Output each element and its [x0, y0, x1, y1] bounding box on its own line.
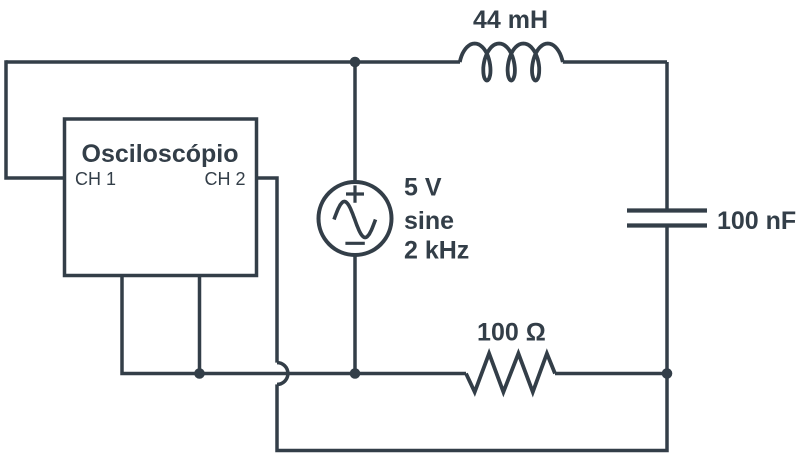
wire capacitor bottom [665, 226, 669, 374]
wire capacitor top [665, 62, 669, 211]
voltage source V1 circle [319, 182, 392, 255]
wire left vertical to CH 1 [6, 60, 64, 178]
svg-text:100 nF: 100 nF [717, 207, 796, 235]
voltage source V1 minus sign [345, 242, 364, 245]
wire source top [353, 62, 357, 182]
wire scope probe 2 down [198, 276, 202, 374]
svg-text:44 mH: 44 mH [473, 6, 548, 34]
svg-text:100 Ω: 100 Ω [477, 318, 546, 346]
capacitor C1 bottom plate [627, 223, 707, 227]
svg-text:sine: sine [404, 207, 454, 235]
wire crossover hop over bottom wire [277, 363, 288, 385]
node junction dot source top [350, 57, 361, 68]
wire top rail left segment [6, 60, 460, 64]
wire source bottom [353, 255, 357, 374]
wire bottom middle segment [200, 372, 466, 376]
wire resistor to right node [555, 372, 667, 376]
voltage source V1 sine symbol [334, 202, 376, 238]
svg-text:5 V: 5 V [404, 174, 442, 202]
resistor R1 zigzag 100 ohm [466, 354, 555, 393]
wire CH 2 stub and vertical down [257, 178, 278, 363]
capacitor C1 top plate [627, 208, 707, 212]
svg-text:CH 1: CH 1 [75, 169, 116, 189]
svg-text:Osciloscópio: Osciloscópio [82, 140, 239, 168]
node junction dot right [662, 368, 673, 379]
svg-text:2 kHz: 2 kHz [404, 236, 469, 264]
wire top rail right segment [563, 60, 667, 64]
oscilloscope box [65, 119, 257, 276]
wire scope probe 1 down [122, 276, 200, 374]
node junction dot probe 2 [194, 368, 205, 379]
voltage source V1 plus sign [346, 185, 364, 202]
svg-text:CH 2: CH 2 [204, 169, 245, 189]
node junction dot source bottom [350, 368, 361, 379]
inductor L1 44 mH [460, 44, 563, 81]
wire CH 2 down to bottom rail [277, 374, 667, 451]
